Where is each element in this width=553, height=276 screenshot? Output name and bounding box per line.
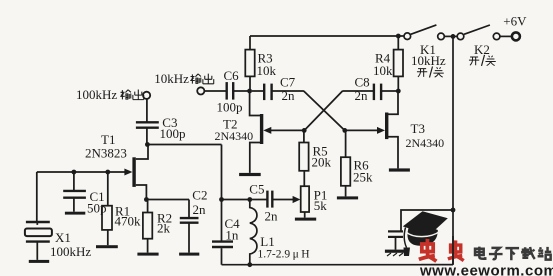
node R1 tap <box>105 170 110 175</box>
wire R1 drop <box>107 172 109 206</box>
svg-text:2n: 2n <box>193 202 207 217</box>
capacitor C7 <box>264 84 271 101</box>
terminal +6V <box>512 32 520 40</box>
svg-text:10kHz: 10kHz <box>411 53 446 68</box>
svg-text:10k: 10k <box>373 63 393 78</box>
ground R1 <box>96 245 118 248</box>
svg-text:470k: 470k <box>115 213 142 228</box>
node tank feed <box>219 197 224 202</box>
wire T1 source <box>136 185 147 200</box>
wire right bus overlay across watermark <box>421 236 453 265</box>
svg-text:10k: 10k <box>257 63 277 78</box>
svg-text:X1: X1 <box>55 230 71 245</box>
svg-text:10kHz: 10kHz <box>154 71 189 86</box>
svg-text:100kHz: 100kHz <box>76 87 117 102</box>
svg-text:50p: 50p <box>87 201 107 216</box>
svg-text:2N3823: 2N3823 <box>85 145 127 160</box>
node T1 source <box>144 197 149 202</box>
resistor R5 <box>299 143 308 171</box>
wire right-side vertical bus <box>452 36 454 264</box>
svg-text:C2: C2 <box>192 187 207 202</box>
wire branch to bypass network <box>401 210 453 231</box>
capacitor C6 <box>227 82 234 100</box>
capacitor C1 <box>63 191 86 198</box>
wire cross coupling C8 to T2 base <box>304 91 342 130</box>
ground T2 emitter <box>239 173 261 176</box>
wire T1 gate line <box>37 171 125 173</box>
wire R5 to P1 <box>303 171 305 186</box>
wire R3 leads <box>249 36 251 91</box>
ground P1 <box>295 218 316 221</box>
wire C5 to P1 wiper <box>273 199 295 201</box>
svg-text:2n: 2n <box>355 88 369 103</box>
svg-text:2N4340: 2N4340 <box>406 136 445 150</box>
wire C8 to collector node <box>381 90 398 92</box>
wire cross coupling C7 to T3 base <box>304 91 345 130</box>
transistor T2 <box>260 114 271 144</box>
wire bottom rail <box>222 264 454 266</box>
watermark site name characters <box>475 247 551 261</box>
label 100kHz output <box>76 87 144 102</box>
svg-text:2n: 2n <box>282 88 296 103</box>
resistor R1 <box>102 206 112 230</box>
resistor R6 <box>341 157 350 186</box>
wire P1 to ground <box>304 212 306 218</box>
wire drain feed horizontal <box>147 144 221 146</box>
switch K1 <box>404 25 444 40</box>
svg-text:1n: 1n <box>225 227 239 242</box>
wire C1 drop <box>73 172 75 190</box>
resistor R3 <box>245 50 254 77</box>
wire R6 to ground <box>345 186 347 197</box>
ground T3 emitter <box>389 168 410 171</box>
label 10kHz output <box>154 71 213 86</box>
resistor R2 <box>143 213 152 239</box>
node K1 K2 junction <box>451 34 456 39</box>
wire C7 to corner <box>272 90 304 92</box>
wire C6 node to C7 <box>252 90 264 92</box>
capacitor C3 <box>136 122 159 127</box>
wire T1 drain <box>136 145 148 160</box>
svg-text:L1: L1 <box>260 234 274 249</box>
watermark graduation cap <box>403 211 448 256</box>
wire base node to R5 <box>303 130 305 142</box>
wire C6 to node <box>234 90 250 92</box>
node C1 tap <box>72 170 77 175</box>
label K1 on/off <box>417 67 444 78</box>
node bypass branch <box>451 208 456 213</box>
node L1 top <box>247 197 252 202</box>
inductor L1 <box>250 200 257 265</box>
ground X1 <box>29 260 49 263</box>
switch K2 <box>457 25 500 40</box>
svg-text:100p: 100p <box>217 100 243 115</box>
capacitor C2 <box>180 218 199 223</box>
transistor T3 <box>377 113 388 140</box>
capacitor C8 <box>374 84 381 101</box>
node T3 collector <box>396 89 401 94</box>
wire C2 drop <box>188 200 190 218</box>
resistor R4 <box>394 50 403 77</box>
svg-text:2N4340: 2N4340 <box>215 129 254 143</box>
node T2 collector <box>247 89 252 94</box>
wire C4 to bottom rail <box>221 248 223 265</box>
wire C2 to ground <box>188 223 190 253</box>
wire 100kHz terminal to C3 <box>146 99 148 122</box>
svg-text:25k: 25k <box>353 169 373 184</box>
node T1 drain <box>145 142 150 147</box>
transistor T1 <box>124 157 135 187</box>
watermark chongchong red characters <box>419 239 464 261</box>
wire bypass cap to ground <box>395 237 397 250</box>
ground C2 <box>179 253 199 256</box>
ground C1 <box>65 212 85 215</box>
wire T3 base <box>345 129 378 131</box>
ground R6 <box>337 196 358 199</box>
wire K2 to +6V terminal <box>500 35 512 37</box>
terminal 10kHz output <box>197 87 204 94</box>
terminal 100kHz output <box>143 92 150 99</box>
node R4 supply <box>396 34 401 39</box>
svg-text:20k: 20k <box>312 155 332 170</box>
svg-text:2k: 2k <box>157 220 171 235</box>
capacitor C4 <box>212 242 233 247</box>
wire T2 collector <box>250 91 261 116</box>
svg-text:C5: C5 <box>249 182 264 197</box>
label K2 on/off <box>469 55 496 66</box>
wire T1 source node horizontal <box>146 199 189 201</box>
capacitor C5 <box>267 191 272 208</box>
svg-text:100p: 100p <box>160 126 186 141</box>
wire 10kHz terminal to C6 <box>204 90 226 92</box>
wire gate line to X1 <box>36 172 38 221</box>
capacitor bypass hidden by watermark <box>388 231 403 237</box>
potentiometer P1 <box>293 186 310 212</box>
wire X1 to ground <box>36 242 38 260</box>
svg-text:C6: C6 <box>224 68 240 83</box>
crystal X1 <box>25 222 52 242</box>
wire feed vertical to C4 <box>221 145 223 242</box>
svg-text:K2: K2 <box>474 42 490 57</box>
wire C1 to ground <box>73 198 75 212</box>
svg-text:T3: T3 <box>411 121 425 136</box>
wire base node to R6 <box>345 130 347 157</box>
node L1 bottom <box>247 262 252 267</box>
node T3 base <box>342 128 347 133</box>
ground R2 <box>137 253 158 256</box>
svg-text:5k: 5k <box>314 198 328 213</box>
wire tank line to C5 <box>222 199 268 201</box>
wire C3 to drain node <box>146 128 148 144</box>
svg-text:2n: 2n <box>265 208 279 223</box>
wire T3 collector <box>388 91 398 114</box>
wire corner to C8 <box>342 90 373 92</box>
wire R4 leads <box>397 36 399 91</box>
ground bypass network <box>385 250 408 256</box>
wire K1 to K2 junction segment <box>444 35 457 37</box>
svg-text:100kHz: 100kHz <box>50 244 91 259</box>
wire T2 emitter <box>250 143 260 173</box>
svg-text:+6V: +6V <box>503 13 527 28</box>
wire T2 base <box>271 129 305 131</box>
wire R2 leads <box>147 200 149 253</box>
svg-text:1.7-2.9μH: 1.7-2.9μH <box>258 248 310 260</box>
node T2 base <box>302 128 307 133</box>
wire R1 to ground <box>107 230 109 245</box>
wire top supply rail <box>250 35 404 37</box>
wire T3 emitter <box>388 137 398 169</box>
